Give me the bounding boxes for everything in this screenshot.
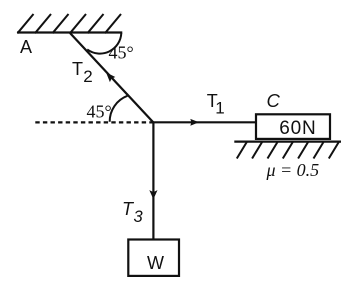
svg-text:1: 1 [215,99,224,118]
svg-text:3: 3 [134,208,144,226]
svg-text:W: W [147,253,164,273]
ground hatch marks [237,142,339,159]
ceiling line at A [17,31,122,33]
bottom 45-degree arc at junction [110,96,128,122]
svg-text:45°: 45° [87,102,112,122]
string T1 (junction to block C) [153,121,256,123]
ceiling hatch marks [18,14,122,33]
block C rectangle 60N [256,114,330,139]
svg-text:μ = 0.5: μ = 0.5 [266,160,320,180]
svg-text:C: C [267,90,281,111]
arrow on T3 pointing down [149,190,157,199]
block W rectangle [128,240,179,276]
svg-text:60N: 60N [279,118,316,139]
arrow on T1 pointing right [190,119,199,126]
svg-text:A: A [20,37,32,57]
string T2 (from ceiling to junction) [70,33,153,122]
top 45-degree arc at ceiling [87,33,121,53]
svg-text:2: 2 [83,67,92,86]
string T3 (junction down to block W) [152,122,154,239]
arrow on T2 pointing up-left [106,72,115,82]
svg-text:45°: 45° [109,43,134,63]
svg-text:T: T [72,59,83,79]
ground line under block C [234,141,341,143]
dashed horizontal reference line [35,121,153,123]
